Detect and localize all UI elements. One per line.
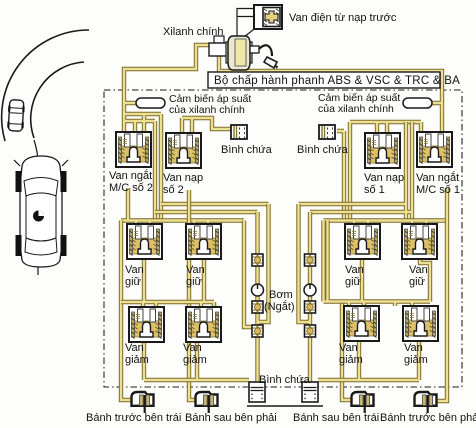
valve: Van giam 4 [403,306,438,341]
check valve left top [252,254,263,266]
svg-text:Van nạp: Van nạp [364,172,404,184]
pressure sensor right [403,98,432,108]
pump circle right [304,284,316,296]
svg-text:Bánh trước bên phải: Bánh trước bên phải [380,412,476,424]
svg-text:số 1: số 1 [364,184,385,196]
check valve left bottom [252,325,263,337]
pressure sensor left [136,98,165,108]
reservoir right (binh chua) [319,125,335,139]
svg-text:(Ngắt): (Ngắt) [264,300,295,313]
svg-text:Xilanh chính: Xilanh chính [163,26,224,38]
bottom reservoir left [249,382,265,402]
small car (top view, turning) [7,100,25,132]
svg-text:Bộ chấp hành phanh ABS & VSC &: Bộ chấp hành phanh ABS & VSC & TRC & BA [214,75,460,87]
svg-text:Van: Van [125,342,144,354]
wire: reduction valve taps [121,221,430,308]
svg-text:Van: Van [345,264,364,276]
wire: master cylinder to left trunk [124,45,232,221]
valve: Van ngat M/C so 1 [417,132,452,167]
valve: Van giam 3 [344,306,379,341]
valve: Van giu 3 [345,224,380,259]
valve: Van giu 4 [402,224,437,259]
svg-text:giữ: giữ [186,276,203,288]
check valve right top [305,254,316,266]
wheel cylinder front left [132,392,154,413]
svg-text:Van: Van [186,264,205,276]
wheel cylinder rear right [196,392,218,413]
wire: reservoir return bus [144,341,419,380]
wheel cylinder front right [415,392,437,413]
svg-text:M/C số 2: M/C số 2 [109,182,153,194]
actuator label box [208,72,460,88]
pump circle left [252,284,264,296]
road inner curve / vehicle path [31,62,84,138]
svg-text:Bánh sau bên trái: Bánh sau bên trái [293,412,379,424]
svg-text:Van: Van [183,342,202,354]
svg-text:Van ngắt: Van ngắt [416,171,459,184]
svg-text:giữ: giữ [345,276,362,288]
valve: Van giu 1 [127,224,162,259]
svg-text:giảm: giảm [339,354,363,366]
valve: Van giam 2 [186,307,221,342]
valve: Van giam 1 [129,307,164,342]
svg-text:Van điện từ nạp trước: Van điện từ nạp trước [289,12,397,24]
svg-text:Van: Van [404,342,423,354]
valve: Van ngat M/C so 2 [116,132,151,167]
svg-text:Bình chứa: Bình chứa [297,144,349,156]
svg-text:số 2: số 2 [163,184,184,196]
large car (top view) [14,156,68,267]
wheel cylinder rear left [352,392,374,413]
reservoir left (binh chua) [231,125,247,139]
svg-text:của xilanh chính: của xilanh chính [318,103,394,115]
svg-text:Van ngắt: Van ngắt [109,169,152,182]
check valve right mid [305,301,316,313]
svg-text:Bình chứa: Bình chứa [259,374,311,386]
svg-text:Bơm: Bơm [269,289,293,301]
svg-text:giảm: giảm [125,354,149,366]
svg-text:giảm: giảm [404,354,428,366]
pre-charge solenoid valve [237,5,282,39]
svg-text:giảm: giảm [183,354,207,366]
wire: middle rails [155,122,412,221]
road outer curve [2,30,89,141]
wire: master cylinder to right trunk [219,49,442,221]
reservoir base line [247,405,323,407]
svg-text:giữ: giữ [409,276,426,288]
svg-text:Van: Van [125,264,144,276]
svg-text:của xilanh chính: của xilanh chính [169,104,245,116]
svg-text:Bình chứa: Bình chứa [221,144,273,156]
wire: pump columns [244,204,310,384]
valve: Van nap so 1 [365,133,400,168]
actuator dashed border [104,90,462,387]
valve: Van giu 2 [186,224,221,259]
wire: supply buses [121,188,447,224]
svg-text:M/C số 1: M/C số 1 [416,184,460,196]
bottom reservoir right [302,382,318,402]
valve: Van nap so 2 [166,133,201,168]
svg-text:Van: Van [409,264,428,276]
svg-text:Van: Van [339,342,358,354]
svg-text:Van nạp: Van nạp [163,172,203,184]
master cylinder and booster [209,36,278,70]
svg-text:Bánh sau bên phải: Bánh sau bên phải [185,412,277,424]
wire: wheel brake lines [121,188,447,401]
vehicle trajectory line [34,140,38,275]
check valve left mid [252,301,263,313]
svg-text:giữ: giữ [125,276,142,288]
svg-text:Bánh trước bên trái: Bánh trước bên trái [86,412,181,424]
check valve right bottom [305,325,316,337]
